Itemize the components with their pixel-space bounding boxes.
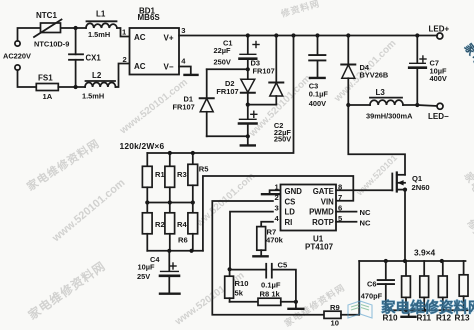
svg-text:R3: R3: [177, 170, 187, 179]
IC U1 PT4107: [281, 185, 337, 231]
svg-text:R6: R6: [178, 235, 188, 244]
node CX1 top: [74, 26, 78, 30]
svg-text:1.5mH: 1.5mH: [82, 92, 104, 101]
svg-text:BYV26B: BYV26B: [360, 71, 389, 80]
wire node B to D3: [248, 104, 276, 106]
capacitor C5: [230, 264, 296, 302]
wire ROTP pin5 NC: [336, 221, 357, 223]
svg-text:R8 1k: R8 1k: [260, 290, 281, 299]
node L3 C7: [415, 103, 419, 107]
transistor Q1 2N60: [392, 173, 405, 192]
svg-text:LED−: LED−: [428, 112, 449, 121]
svg-text:NTC1: NTC1: [36, 11, 57, 20]
resistor R9: [324, 311, 341, 318]
resistor R6: [188, 203, 198, 251]
wire source down: [404, 190, 406, 261]
wire to LED-: [417, 105, 437, 106]
capacitor C7: [409, 36, 426, 106]
svg-text:1.5mH: 1.5mH: [88, 30, 110, 39]
svg-text:LED+: LED+: [429, 25, 450, 34]
capacitor C2: [239, 105, 257, 137]
svg-text:0.1µF: 0.1µF: [309, 90, 329, 99]
ground bridge V-: [185, 74, 198, 76]
svg-text:3: 3: [181, 26, 185, 35]
wire fuse to L2: [58, 86, 85, 88]
svg-text:250V: 250V: [274, 134, 291, 143]
svg-text:2N60: 2N60: [412, 183, 430, 192]
node C1 rail: [246, 33, 250, 37]
svg-text:1A: 1A: [43, 92, 53, 101]
wire R9 to source rail: [341, 261, 359, 315]
svg-text:V+: V+: [164, 34, 174, 43]
svg-text:NTC10D-9: NTC10D-9: [34, 40, 69, 49]
node rail D3: [274, 33, 278, 37]
svg-text:FR107: FR107: [173, 102, 195, 111]
svg-text:R10: R10: [235, 279, 249, 288]
resistor R12 sense: [438, 261, 447, 310]
svg-text:FR107: FR107: [253, 66, 275, 75]
ground pin1: [262, 193, 279, 195]
svg-text:CX1: CX1: [86, 54, 102, 63]
svg-text:R4: R4: [177, 220, 187, 229]
node Q1 source: [403, 188, 407, 192]
node R8 C5: [294, 300, 298, 304]
resistor R4: [165, 203, 175, 251]
resistor R7 470k: [257, 227, 266, 256]
svg-text:FR107: FR107: [216, 87, 238, 96]
wire D1 anode to node C: [207, 135, 248, 137]
diode D3 FR107: [269, 36, 283, 105]
svg-text:22µF: 22µF: [214, 46, 231, 55]
node B: [246, 103, 250, 107]
wire R10 to R8: [230, 301, 258, 303]
resistor R2: [142, 203, 152, 251]
resistor R3: [165, 153, 175, 203]
svg-text:VIN: VIN: [321, 197, 334, 206]
svg-text:5k: 5k: [235, 289, 244, 298]
wire PWMD pin6 NC: [336, 211, 357, 213]
node rail descender: [291, 33, 295, 37]
svg-text:R1: R1: [155, 170, 165, 179]
terminal AC220V neutral: [15, 65, 20, 70]
svg-text:R2: R2: [155, 220, 165, 229]
wire L1 to bridge pin1: [117, 28, 130, 37]
node D4 rail: [346, 33, 350, 37]
ground C4: [160, 293, 180, 295]
svg-text:2: 2: [123, 55, 127, 64]
wire L2 to bridge pin2: [116, 64, 130, 88]
svg-text:25V: 25V: [137, 272, 150, 281]
inductor L1: [86, 21, 117, 28]
inductor L2: [85, 81, 116, 87]
ground sense rail: [402, 310, 416, 317]
svg-text:MB6S: MB6S: [138, 13, 161, 22]
svg-text:LD: LD: [285, 208, 296, 217]
svg-text:8: 8: [338, 182, 342, 191]
svg-text:250V: 250V: [214, 58, 231, 67]
node C7 rail: [415, 33, 419, 37]
wire drain route: [348, 105, 405, 175]
svg-text:RI: RI: [285, 218, 293, 227]
bridge rectifier BD1 MB6S: [130, 28, 180, 75]
node C3 rail: [315, 33, 319, 37]
wire GATE pin8: [336, 189, 392, 191]
svg-text:0.1µF: 0.1µF: [261, 281, 281, 290]
svg-text:家电维修资料网: 家电维修资料网: [381, 299, 474, 317]
svg-text:C5: C5: [278, 260, 288, 269]
wire bottom input: [18, 70, 37, 87]
svg-text:AC: AC: [134, 62, 146, 71]
svg-text:Q1: Q1: [412, 174, 423, 183]
wire V+ rail: [179, 35, 437, 37]
diode D2 FR107: [241, 69, 255, 104]
svg-text:L2: L2: [92, 71, 102, 80]
svg-text:ROTP: ROTP: [312, 218, 334, 227]
svg-text:L3: L3: [376, 88, 386, 97]
node C: [246, 134, 250, 138]
svg-text:7: 7: [338, 193, 342, 202]
svg-text:GND: GND: [285, 187, 303, 196]
svg-text:PWMD: PWMD: [309, 208, 334, 217]
resistor R10 sense: [402, 261, 411, 310]
diode D1 FR107: [200, 69, 214, 136]
node D4 anode: [346, 103, 350, 107]
resistor R13 sense: [459, 261, 468, 310]
resistor R5: [188, 153, 198, 203]
svg-text:400V: 400V: [430, 74, 447, 83]
svg-text:3.9×4: 3.9×4: [414, 247, 436, 257]
resistor R1: [142, 153, 152, 203]
wire RI pin4 to R7: [261, 222, 273, 227]
node A: [246, 67, 250, 71]
capacitor C4: [160, 251, 179, 293]
wire pin4 to ground: [179, 67, 191, 74]
svg-text:6: 6: [338, 204, 342, 213]
ground R7: [253, 255, 267, 257]
fuse FS1: [36, 84, 58, 91]
node LD R10: [228, 267, 232, 271]
wire top input: [18, 28, 87, 41]
node CX1 bottom: [74, 85, 78, 89]
wire VIN bottom rail: [147, 250, 203, 252]
svg-text:2: 2: [275, 193, 279, 202]
terminal AC220V line: [15, 41, 20, 46]
svg-text:3: 3: [275, 204, 279, 213]
svg-text:NC: NC: [360, 218, 371, 227]
terminal LED+: [437, 33, 443, 39]
svg-text:NC: NC: [360, 208, 371, 217]
node network top: [168, 151, 172, 155]
svg-text:L1: L1: [96, 10, 106, 19]
wire R8 to node: [281, 301, 296, 303]
svg-text:R9: R9: [330, 303, 340, 312]
terminal LED-: [437, 103, 443, 109]
wire CS pin2 to sense: [212, 201, 324, 315]
svg-text:AC: AC: [134, 33, 146, 42]
wire sense top rail: [359, 260, 465, 262]
ground node C: [241, 136, 255, 145]
ground R8: [289, 302, 304, 309]
svg-text:470k: 470k: [266, 235, 284, 244]
svg-text:V−: V−: [164, 63, 174, 72]
ground C3: [310, 77, 325, 79]
resistor R11 sense: [420, 261, 429, 310]
svg-text:10µF: 10µF: [138, 262, 155, 271]
svg-text:470pF: 470pF: [361, 291, 383, 300]
resistor R8 1k: [258, 298, 281, 305]
capacitor C1: [240, 36, 260, 70]
wire middle rail: [147, 202, 193, 204]
svg-text:R5: R5: [199, 165, 209, 174]
svg-text:120k/2W×6: 120k/2W×6: [120, 141, 165, 151]
inductor L3: [348, 98, 417, 105]
wire GND pin1: [270, 190, 281, 193]
svg-text:PT4107: PT4107: [305, 243, 334, 252]
svg-text:AC220V: AC220V: [3, 52, 31, 61]
capacitor CX1: [69, 28, 83, 87]
wire LD pin3: [230, 212, 273, 270]
svg-text:CS: CS: [285, 197, 296, 206]
svg-text:GATE: GATE: [313, 187, 334, 196]
capacitor C6 470pF: [378, 261, 394, 310]
svg-text:400V: 400V: [309, 99, 326, 108]
wire VIN riser to pin 7: [203, 176, 353, 251]
wire rail to 120k network: [147, 36, 293, 154]
thermistor NTC1: [34, 20, 62, 38]
svg-text:C6: C6: [367, 279, 376, 288]
resistor R10 5k: [225, 269, 234, 302]
diode D4 BYV26B: [341, 36, 355, 106]
svg-text:10: 10: [331, 318, 339, 327]
svg-text:39mH/300mA: 39mH/300mA: [366, 112, 413, 121]
wire sense bottom rail: [386, 309, 468, 311]
capacitor C3: [309, 36, 325, 77]
watermark logo: [348, 301, 372, 318]
svg-text:FS1: FS1: [38, 74, 53, 83]
wire node A to D1 branch: [207, 68, 248, 70]
